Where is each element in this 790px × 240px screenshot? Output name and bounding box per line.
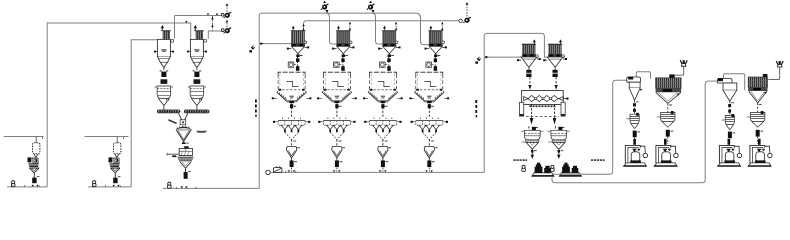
plansifter PS1 — [520, 91, 569, 117]
node: riser arrows U1 — [302, 24, 305, 30]
wire: riser U2 — [349, 21, 351, 31]
hopper H3 — [626, 113, 639, 129]
wire: sifter outlet stems — [531, 104, 533, 118]
cyclone CY6 (group B) — [717, 78, 736, 115]
node: arrows on line y23 — [185, 21, 187, 23]
wire: main recirculation riser and header — [259, 13, 429, 188]
packer PK1 — [624, 146, 648, 167]
cyclone CY2 — [187, 26, 207, 110]
wire: station2 feed line — [85, 136, 129, 138]
fan V1 — [221, 13, 224, 16]
diverter D1 — [249, 45, 255, 53]
bagging scale pair 1 — [532, 163, 554, 177]
feeder box — [180, 120, 186, 125]
label dash — [197, 131, 207, 132]
wire: riser U3 — [395, 21, 397, 31]
wire: units collecting line — [270, 171, 484, 173]
purifier unit U1 — [272, 26, 312, 172]
node: junction circle — [459, 19, 462, 22]
wire: riser U4 — [441, 21, 443, 31]
label text 2 — [591, 159, 593, 161]
blower P1 — [11, 181, 15, 187]
vent VC1 — [680, 60, 687, 66]
wire: Y merge into hopper — [179, 113, 188, 119]
fan V3 — [321, 4, 329, 10]
label text 1 — [514, 159, 516, 161]
node: dark marks on riser — [255, 100, 257, 103]
wire: station2 pneumatic bottom line — [88, 186, 131, 188]
vent VC2 — [776, 61, 783, 67]
wire: branch to unit U1 cyclone — [259, 43, 291, 45]
hopper H6 — [747, 111, 765, 127]
purifier unit U3 — [363, 26, 403, 172]
blower P2 — [92, 181, 96, 187]
wire: exhaust manifold to fan V5 — [304, 21, 459, 31]
purifier unit U4 — [410, 26, 450, 172]
wire: CY1 vent to fan line A — [175, 16, 224, 39]
hopper H1 — [521, 126, 543, 159]
screw conveyor left — [157, 110, 181, 113]
scale box — [184, 147, 188, 149]
hopper H2 — [547, 126, 569, 159]
filter F3 (group A) — [656, 74, 682, 112]
screw conveyor right — [184, 110, 209, 113]
packer PK4 — [748, 146, 772, 167]
cyclone CY3 — [517, 40, 541, 90]
wire: drop to unit U3 cyclone — [373, 13, 383, 44]
filter F1 station1 — [12, 137, 42, 187]
filter F2 station2 — [93, 137, 123, 187]
hopper H5 — [721, 114, 734, 130]
node: suction circle — [266, 170, 270, 174]
cyclone CY4 — [543, 40, 567, 90]
bagging scale pair 2 — [559, 163, 581, 177]
mixer M1 dome — [176, 127, 191, 130]
wire: line to group B — [552, 81, 717, 183]
node: dark marks near riser — [475, 100, 477, 103]
wire: riser station2 to cyclone CY1 — [131, 40, 157, 187]
mixer M1 cone — [176, 129, 191, 141]
fan V4 — [367, 4, 375, 10]
packer PK2 — [654, 146, 678, 167]
node: arrows on line A — [207, 14, 219, 16]
fan V2 — [221, 29, 224, 32]
wire: station1 pneumatic bottom line — [7, 186, 47, 188]
label line — [168, 120, 176, 124]
wire: station1 feed line — [4, 136, 44, 138]
wire: sifter group riser and loop — [484, 33, 547, 172]
diverter D2 — [475, 56, 481, 64]
sieve stack S3 — [172, 155, 176, 157]
wire: riser station1 to cyclone CY2 — [47, 23, 191, 187]
cyclone CY1 — [154, 26, 174, 110]
purifier unit U2 — [317, 26, 357, 172]
blower P3 — [274, 166, 282, 172]
packer PK3 — [718, 146, 742, 167]
mixer outlet — [182, 142, 186, 144]
wire: CY5 vent pipe — [636, 72, 650, 79]
wire: CY6 vent pipe — [724, 74, 745, 91]
wire: dashed link between fan lines — [211, 16, 213, 30]
wire: CY2 vent to fan line B — [208, 31, 224, 39]
airlock — [184, 172, 188, 179]
filter F4 (group B) — [748, 74, 767, 112]
fan V5 — [463, 17, 471, 23]
wire: mixer station bottom line — [163, 187, 259, 189]
cyclone CY5 (group A) — [627, 77, 642, 115]
wire: line to group A — [553, 80, 627, 174]
wire: drop to unit U2 cyclone — [327, 13, 337, 44]
hopper H4 — [657, 111, 675, 127]
